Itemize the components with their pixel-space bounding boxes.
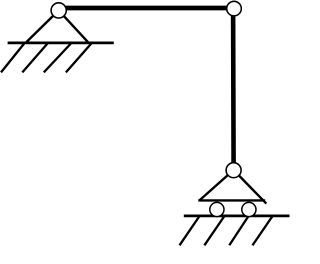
support C triangle left leg (199, 170, 233, 201)
pin circle at C (above roller support) (226, 163, 241, 178)
support A triangle left leg (26, 10, 59, 42)
support C hatch 2 (204, 217, 224, 246)
pin circle at A (top-left) (51, 3, 66, 18)
support C triangle base (198, 199, 265, 201)
support A hatch 3 (44, 44, 71, 73)
support A ground line (8, 42, 114, 45)
roller circle left (210, 202, 224, 216)
support A hatch 2 (22, 44, 47, 73)
pin circle at B (top-right) (227, 1, 242, 16)
support C triangle right leg (234, 170, 267, 204)
support C ground line (184, 215, 290, 218)
support A triangle right leg (59, 10, 89, 42)
support C hatch 4 (253, 217, 273, 246)
member BC (vertical column) (231, 8, 236, 170)
support C hatch 1 (180, 217, 200, 246)
support A hatch 1 (1, 44, 24, 73)
roller circle right (242, 202, 256, 216)
member AB (horizontal beam) (58, 6, 234, 11)
support C hatch 3 (229, 217, 248, 246)
support A hatch 4 (66, 44, 91, 73)
